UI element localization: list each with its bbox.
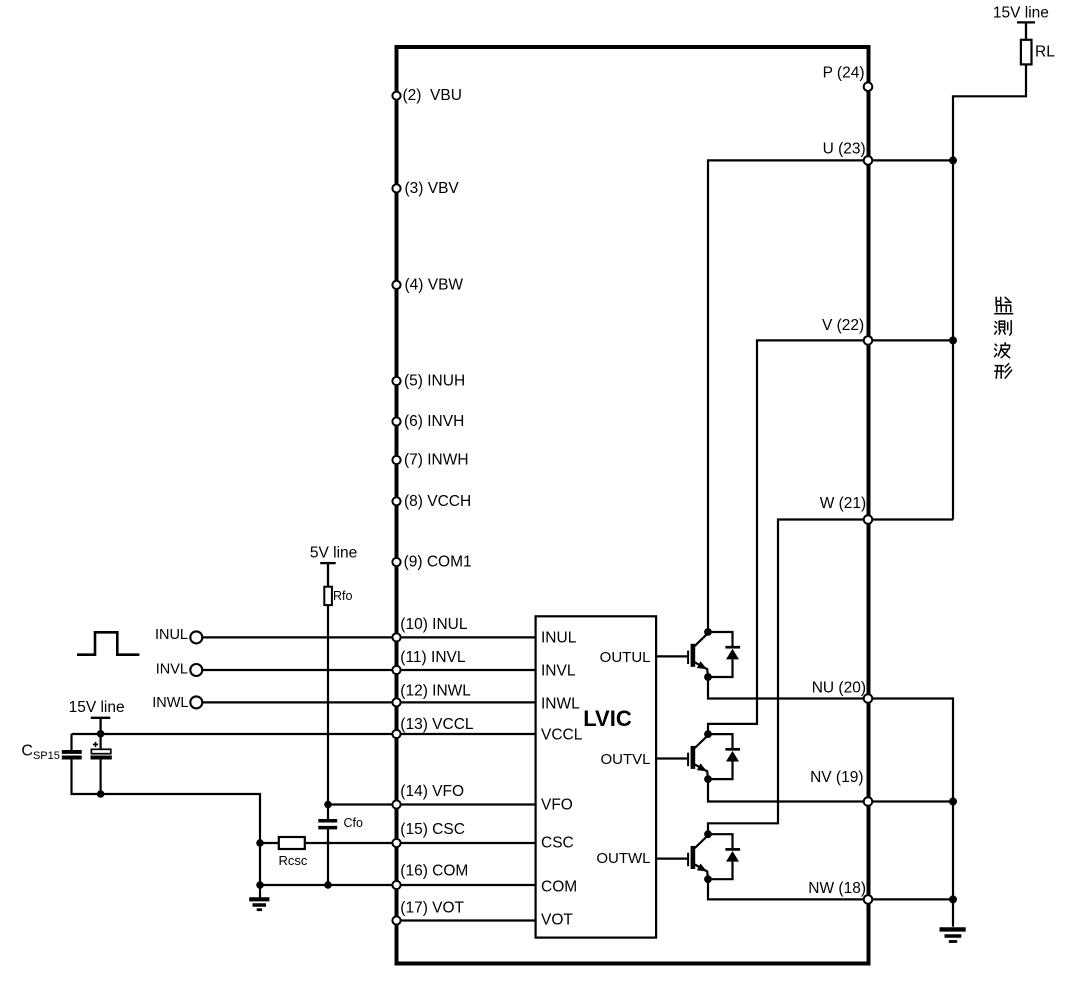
wire input INWL to pin (12) and LVIC	[196, 701, 537, 703]
junction bus U	[949, 156, 957, 164]
wire COM node to ground	[259, 885, 261, 898]
wire Cfo to COM node	[327, 829, 329, 885]
svg-text:Rcsc: Rcsc	[279, 853, 308, 868]
pin (12) INWL	[392, 698, 400, 706]
node Q1 emitter	[704, 673, 712, 681]
capacitor CSP15 (electrolytic, polarized)	[91, 742, 112, 758]
wire V (22) to bus	[868, 339, 953, 341]
svg-text:VOT: VOT	[541, 912, 573, 929]
svg-text:(15) CSC: (15) CSC	[400, 821, 465, 838]
pin NU (20)	[864, 694, 873, 703]
pin P (24)	[864, 82, 873, 91]
input terminal INUL	[190, 631, 202, 643]
junction CSC node	[256, 839, 264, 847]
pin (14) VFO	[392, 800, 400, 808]
svg-text:NU (20): NU (20)	[812, 680, 866, 697]
pin (2) VBU	[392, 92, 400, 100]
junction COM node left	[256, 881, 264, 889]
pin (16) COM	[392, 881, 400, 889]
transistor Q2 (IGBT, OUTVL)	[655, 735, 708, 779]
pin (5) INUH	[392, 377, 400, 385]
15V line power symbol (top right)	[1017, 22, 1035, 40]
15V line power symbol (left)	[91, 718, 111, 734]
svg-text:(6) INVH: (6) INVH	[404, 413, 464, 430]
wire V phase: pin to IGBT Q2 collector	[708, 340, 868, 734]
svg-text:CSC: CSC	[541, 835, 574, 852]
wire VFO node to pin (14) and LVIC	[328, 803, 537, 805]
wire NV (19): Q2 emitter to pin	[708, 779, 868, 801]
svg-text:(9) COM1: (9) COM1	[404, 554, 472, 571]
svg-text:W (21): W (21)	[820, 495, 867, 512]
svg-text:INWL: INWL	[152, 695, 188, 711]
svg-text:NW (18): NW (18)	[808, 880, 866, 897]
wire left branch to capacitor C1	[70, 734, 72, 751]
pin (10) INUL	[392, 633, 400, 641]
node Q3 collector	[704, 830, 712, 838]
label monitor waveform (Chinese, hand-drawn glyphs)	[995, 297, 1013, 378]
char xing	[995, 364, 1012, 379]
resistor RL	[1021, 40, 1032, 65]
capacitor Cfo	[318, 821, 337, 828]
pin W (21)	[864, 515, 873, 524]
wire COM node to pin (16) and LVIC	[260, 884, 537, 886]
wire Rfo to VFO node	[327, 605, 329, 819]
svg-text:INVL: INVL	[541, 663, 576, 680]
wire U (23) to bus	[868, 159, 953, 161]
input pulse waveform symbol	[77, 632, 139, 654]
node Q1 collector	[704, 628, 712, 636]
svg-text:U (23): U (23)	[823, 141, 866, 158]
svg-text:INWL: INWL	[541, 696, 580, 713]
svg-text:(5) INUH: (5) INUH	[404, 373, 465, 390]
junction capacitor bottom node	[97, 790, 105, 798]
svg-text:Cfo: Cfo	[344, 816, 364, 830]
junction Cfo COM node	[324, 881, 332, 889]
char bo	[995, 343, 1010, 358]
wire W (21) to bus	[868, 518, 953, 520]
junction bus NV	[949, 798, 957, 806]
transistor Q3 (IGBT, OUTWL)	[655, 835, 708, 879]
resistor Rfo	[324, 587, 332, 605]
svg-text:VFO: VFO	[541, 797, 573, 814]
module outline (IPM box)	[397, 47, 869, 964]
svg-text:15V line: 15V line	[993, 5, 1049, 22]
svg-text:LVIC: LVIC	[583, 706, 632, 731]
junction bus NW	[949, 895, 957, 903]
pin (7) INWH	[392, 456, 400, 464]
wire node 15V to capacitors	[99, 734, 101, 751]
wire 15V to pin (13) VCCL and LVIC	[72, 733, 537, 735]
svg-text:Rfo: Rfo	[333, 589, 353, 603]
wire pin (17) VOT to LVIC	[397, 919, 537, 921]
input terminal INWL	[190, 696, 202, 708]
char ce	[995, 321, 1012, 336]
junction 15V top node	[97, 730, 105, 738]
wire NW pin to right bus	[868, 898, 953, 900]
char jian	[995, 297, 1013, 314]
svg-text:(7) INWH: (7) INWH	[404, 452, 469, 469]
pin (6) INVH	[392, 417, 400, 425]
svg-text:(4) VBW: (4) VBW	[405, 276, 464, 293]
svg-text:RL: RL	[1035, 44, 1055, 61]
pin (8) VCCH	[392, 497, 400, 505]
pin NV (19)	[864, 797, 873, 806]
LVIC box U1	[536, 616, 657, 937]
ground (right bus)	[940, 929, 966, 941]
wire U phase: pin to IGBT Q1 collector	[708, 160, 868, 632]
svg-text:OUTUL: OUTUL	[600, 649, 651, 666]
svg-text:(16) COM: (16) COM	[400, 863, 468, 880]
svg-text:(13) VCCL: (13) VCCL	[400, 716, 474, 733]
svg-text:COM: COM	[541, 879, 577, 896]
transistor Q1 (IGBT, OUTUL)	[655, 633, 708, 677]
svg-text:NV (19): NV (19)	[810, 769, 863, 786]
wire input INVL to pin (11) and LVIC	[196, 669, 537, 671]
wire input INUL to pin (10) and LVIC	[196, 636, 537, 638]
pin (15) CSC	[392, 839, 400, 847]
svg-text:V (22): V (22)	[822, 317, 864, 334]
pin (3) VBV	[392, 184, 400, 192]
wire CSC node to pin (15) and LVIC	[260, 842, 537, 844]
svg-text:INUL: INUL	[541, 630, 577, 647]
svg-text:OUTWL: OUTWL	[596, 850, 650, 867]
svg-text:(12) INWL: (12) INWL	[400, 683, 471, 700]
5V line power symbol	[320, 563, 336, 587]
svg-text:INVL: INVL	[156, 662, 188, 678]
pin (9) COM1	[392, 558, 400, 566]
resistor Rcsc	[279, 837, 305, 849]
input terminal INVL	[190, 664, 202, 676]
pin (11) INVL	[392, 666, 400, 674]
svg-text:(17) VOT: (17) VOT	[400, 900, 464, 917]
svg-text:5V line: 5V line	[310, 545, 357, 562]
pin U (23)	[864, 156, 873, 165]
wire NU pin to right bus	[868, 699, 953, 927]
svg-text:INUL: INUL	[155, 627, 188, 643]
svg-text:(11) INVL: (11) INVL	[400, 649, 466, 666]
svg-text:(10) INUL: (10) INUL	[400, 616, 468, 633]
pin V (22)	[864, 336, 873, 345]
junction VFO node	[324, 801, 332, 809]
diode D3 (freewheel across Q3)	[708, 834, 740, 879]
wire CSC node vertical	[259, 843, 261, 885]
wire NV pin to right bus	[868, 800, 953, 802]
ground (left, COM)	[249, 899, 269, 909]
junction bus V	[949, 336, 957, 344]
pin (17) VOT	[392, 916, 400, 924]
wire RL to monitor bus	[953, 64, 1026, 519]
svg-text:15V line: 15V line	[69, 699, 125, 716]
node Q3 emitter	[704, 875, 712, 883]
pin NW (18)	[864, 895, 873, 904]
svg-text:OUTVL: OUTVL	[600, 751, 650, 768]
svg-text:VCCL: VCCL	[541, 727, 583, 744]
wire NU (20): Q1 emitter to pin	[708, 677, 868, 699]
wire NW (18): Q3 emitter to pin	[708, 879, 868, 899]
node Q2 emitter	[704, 775, 712, 783]
svg-text:(3) VBV: (3) VBV	[405, 180, 460, 197]
diode D1 (freewheel across Q1)	[708, 632, 740, 677]
capacitor CSP15 (ceramic, left)	[62, 752, 82, 758]
svg-text:(2) VBU: (2) VBU	[403, 87, 462, 104]
svg-text:(14) VFO: (14) VFO	[400, 783, 464, 800]
pin (4) VBW	[392, 281, 400, 289]
wire W phase: pin to IGBT Q3 collector	[708, 520, 868, 835]
svg-text:(8) VCCH: (8) VCCH	[404, 493, 471, 510]
diode D2 (freewheel across Q2)	[708, 734, 740, 779]
svg-text:P (24): P (24)	[823, 65, 865, 82]
pin (13) VCCL	[392, 730, 400, 738]
node Q2 collector	[704, 730, 712, 738]
